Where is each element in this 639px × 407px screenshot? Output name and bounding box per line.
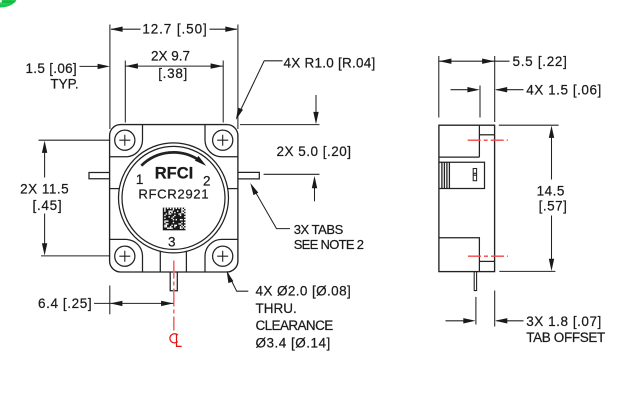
right tab — [238, 172, 259, 179]
dimension 2X 5.0 [.20] — [240, 95, 320, 201]
svg-text:SEE NOTE 2: SEE NOTE 2 — [294, 237, 364, 252]
bottom cutout lines — [160, 251, 186, 272]
svg-text:12.7 [.50]: 12.7 [.50] — [142, 22, 207, 37]
svg-text:1.5 [.06]: 1.5 [.06] — [26, 61, 78, 76]
svg-text:RFCR2921: RFCR2921 — [138, 186, 209, 201]
svg-text:14.5: 14.5 — [537, 183, 565, 198]
dimension 4X 1.5 [.06] — [451, 86, 524, 118]
screw hole bottom-left — [115, 246, 135, 266]
dimension 5.5 [.22] — [439, 56, 510, 122]
screw hole top-left — [115, 130, 135, 150]
svg-text:TAB OFFSET: TAB OFFSET — [526, 330, 605, 345]
side view middle tab block — [439, 162, 485, 188]
svg-text:5.5 [.22]: 5.5 [.22] — [513, 54, 568, 69]
rotation arc arrow — [141, 152, 198, 165]
side view slab step top — [479, 134, 494, 136]
corner pocket top-right — [205, 125, 238, 157]
centerline symbol CL — [170, 334, 182, 347]
svg-text:RFCI: RFCI — [155, 164, 194, 182]
screw hole bottom-right — [213, 246, 233, 266]
svg-text:[.57]: [.57] — [539, 199, 568, 214]
side view outline — [439, 125, 495, 271]
leader 3X TABS SEE NOTE 2 — [252, 186, 290, 228]
cover circle outer — [119, 143, 229, 253]
svg-text:1: 1 — [136, 172, 144, 187]
dimension 2X 9.7 [.38] — [125, 61, 223, 123]
red centerline side top — [468, 139, 508, 141]
svg-text:2X 9.7: 2X 9.7 — [151, 49, 190, 64]
corner pocket bottom-left — [110, 239, 143, 272]
side view slot — [473, 169, 476, 181]
green logo fragment top-left — [0, 0, 17, 8]
svg-text:CLEARANCE: CLEARANCE — [256, 318, 334, 333]
svg-text:4X 1.5 [.06]: 4X 1.5 [.06] — [526, 82, 602, 97]
dimension 12.7 [.50] — [110, 25, 238, 130]
svg-text:TYP.: TYP. — [50, 77, 78, 92]
dimension 2X 11.5 [.45] — [39, 140, 110, 256]
svg-text:6.4 [.25]: 6.4 [.25] — [38, 296, 92, 311]
data matrix code — [163, 208, 186, 231]
side view tab hatch lines — [442, 162, 450, 188]
svg-text:[.45]: [.45] — [33, 198, 63, 213]
red centerline side bottom — [468, 255, 508, 257]
side view bottom pin — [474, 272, 476, 291]
svg-text:3: 3 — [168, 234, 176, 249]
svg-text:3X TABS: 3X TABS — [294, 222, 344, 237]
side view top ear inner lines — [439, 125, 480, 157]
svg-text:2X 11.5: 2X 11.5 — [20, 181, 69, 196]
screw hole top-right — [213, 130, 233, 150]
left tab — [89, 173, 110, 179]
side view slab step bottom — [479, 260, 494, 262]
dimension 14.5 [.57] — [499, 125, 559, 271]
leader 4X thru hole note — [228, 273, 249, 292]
front view body outline — [110, 125, 238, 272]
dimension 3X 1.8 [.07] TAB OFFSET — [446, 291, 524, 327]
left step line — [110, 188, 120, 190]
svg-text:3X 1.8 [.07]: 3X 1.8 [.07] — [526, 314, 602, 329]
svg-text:4X R1.0 [R.04]: 4X R1.0 [R.04] — [284, 56, 376, 71]
right step line — [228, 188, 238, 190]
corner pocket top-left — [110, 125, 143, 157]
svg-text:4X Ø2.0 [Ø.08]: 4X Ø2.0 [Ø.08] — [256, 284, 352, 299]
side view bottom ear — [439, 238, 480, 272]
svg-text:Ø3.4 [Ø.14]: Ø3.4 [Ø.14] — [256, 336, 331, 351]
svg-text:2X 5.0 [.20]: 2X 5.0 [.20] — [277, 144, 352, 159]
red centerline front — [173, 261, 175, 331]
corner pocket bottom-right — [205, 239, 238, 272]
bottom pin — [170, 272, 177, 291]
svg-text:[.38]: [.38] — [158, 66, 188, 81]
svg-text:THRU.: THRU. — [256, 301, 297, 316]
cover circle inner — [122, 146, 225, 249]
